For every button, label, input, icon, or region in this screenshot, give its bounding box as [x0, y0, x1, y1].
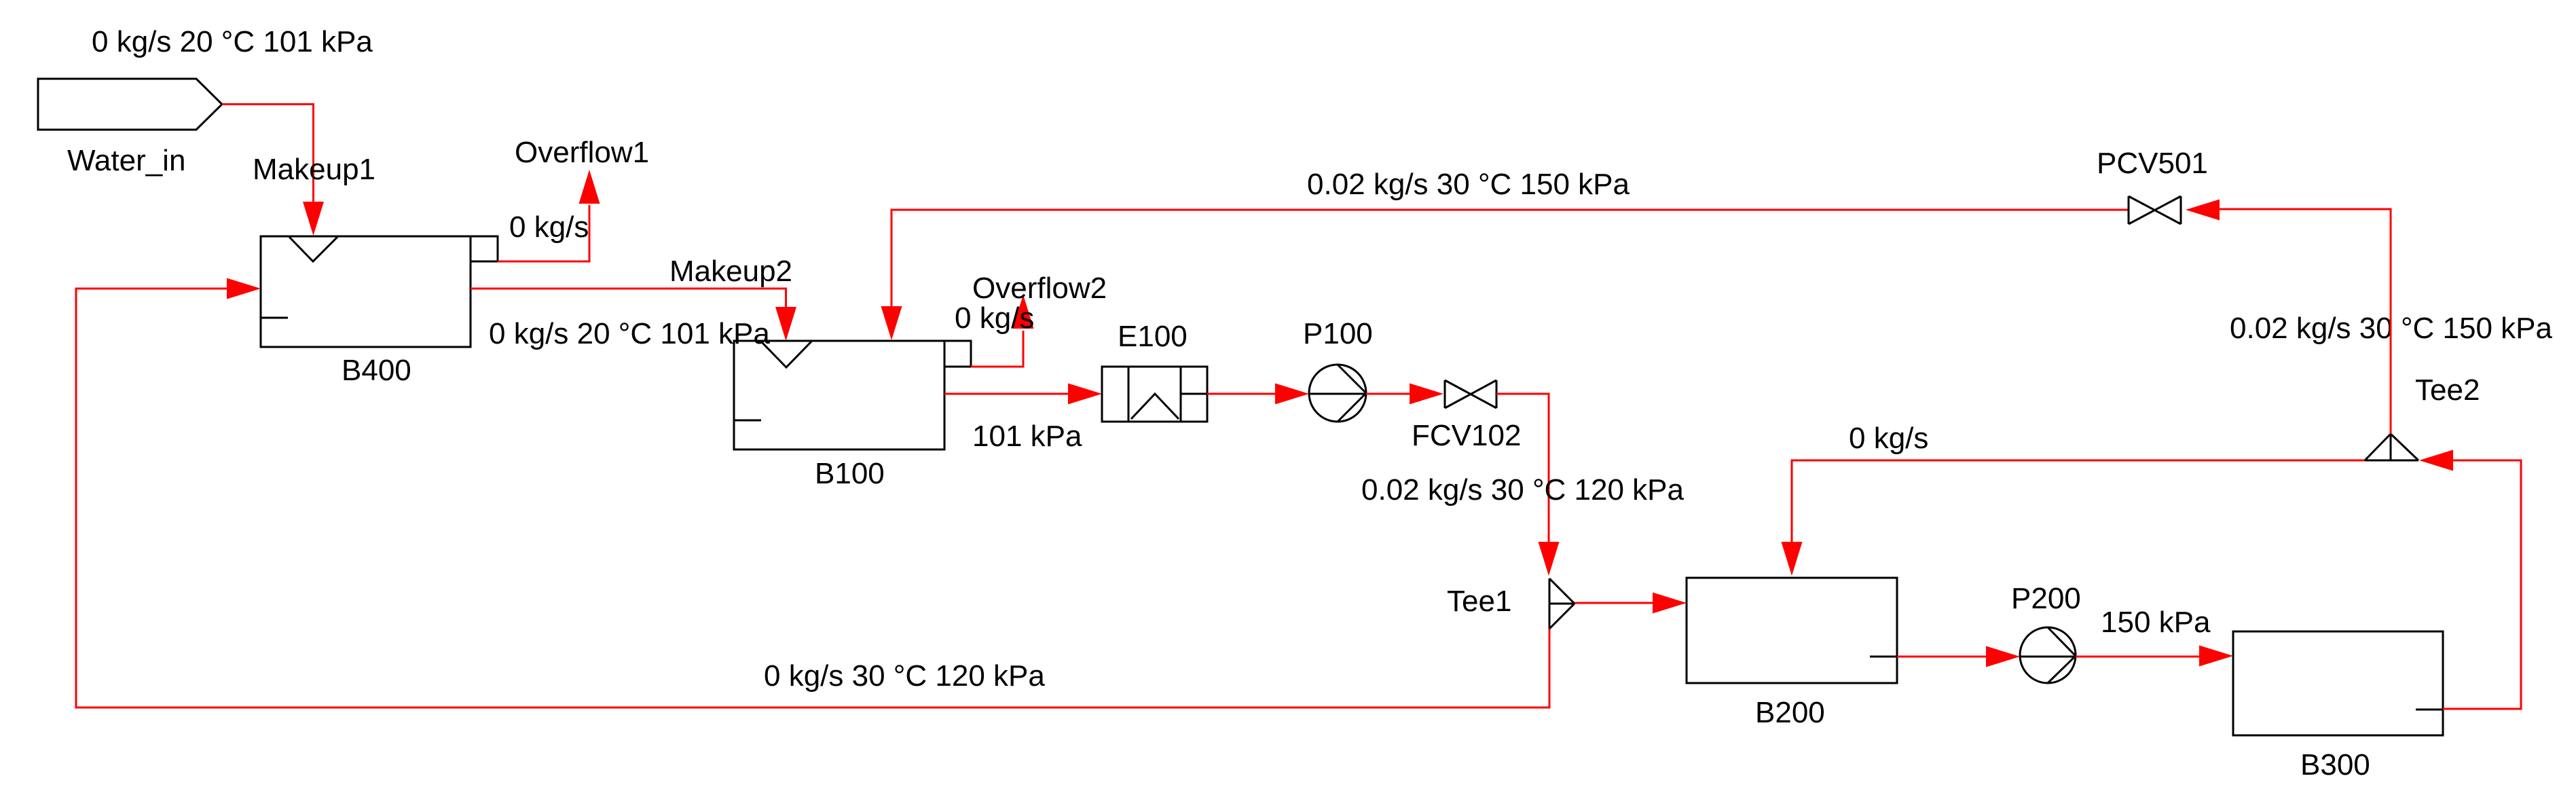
svg-text:Tee2: Tee2 — [2415, 373, 2480, 407]
wire Tee1 to B200 (red) — [1575, 602, 1653, 604]
svg-text:Tee1: Tee1 — [1447, 585, 1511, 618]
svg-text:B200: B200 — [1755, 696, 1825, 729]
svg-text:Overflow1: Overflow1 — [515, 136, 649, 169]
arrow Makeup2 into B100 — [775, 307, 796, 341]
wire B100 to E100 (red) — [944, 393, 1068, 395]
arrow into P100 — [1275, 384, 1309, 405]
svg-text:PCV501: PCV501 — [2097, 147, 2208, 180]
svg-text:0 kg/s: 0 kg/s — [509, 210, 589, 244]
wire P100 to FCV102 (red) — [1366, 393, 1410, 395]
wire B200 to P200 (red) — [1897, 656, 1986, 658]
svg-text:FCV102: FCV102 — [1412, 419, 1521, 452]
svg-text:P100: P100 — [1303, 317, 1373, 350]
valve PCV501 — [2129, 196, 2181, 224]
svg-text:0.02 kg/s 30 °C 120 kPa: 0.02 kg/s 30 °C 120 kPa — [1361, 473, 1685, 507]
svg-text:101 kPa: 101 kPa — [972, 420, 1082, 453]
svg-text:B100: B100 — [815, 457, 885, 490]
wire FCV102 to Tee1 (red) — [1496, 394, 1549, 543]
svg-text:Overflow2: Overflow2 — [972, 272, 1107, 305]
arrow into E100 — [1068, 384, 1102, 405]
wire B300 to Tee2 (red) — [2443, 460, 2521, 709]
arrow into B200 top — [1782, 542, 1803, 576]
svg-text:Makeup1: Makeup1 — [253, 153, 375, 186]
arrow into B200 left — [1653, 593, 1687, 614]
arrow Makeup1 into B400 — [303, 202, 324, 236]
svg-text:0.02 kg/s 30 °C 150 kPa: 0.02 kg/s 30 °C 150 kPa — [1307, 168, 1630, 201]
pump P200 — [2020, 627, 2076, 683]
svg-text:150 kPa: 150 kPa — [2101, 606, 2211, 639]
svg-text:B300: B300 — [2300, 748, 2370, 781]
source flag Water_in — [38, 79, 222, 130]
tee Tee2 — [2365, 434, 2418, 460]
heat exchanger E100 — [1102, 367, 1207, 422]
arrow into PCV501 right — [2186, 200, 2220, 221]
pump P100 — [1309, 365, 1366, 422]
svg-text:B400: B400 — [342, 354, 411, 387]
wire Water_in to Makeup1 (red) — [222, 105, 314, 204]
arrow into FCV102 — [1410, 384, 1443, 405]
wire P200 to B300 (red) — [2076, 656, 2199, 658]
wire Overflow2 (red) — [971, 331, 1023, 367]
tank B300 — [2233, 631, 2443, 735]
arrow into P200 — [1986, 646, 2020, 667]
svg-text:0 kg/s: 0 kg/s — [1849, 422, 1928, 455]
svg-text:Water_in: Water_in — [67, 144, 185, 177]
valve FCV102 — [1445, 380, 1496, 408]
wire PCV501 to B100 top (red) — [891, 210, 2129, 307]
arrow Overflow2 up — [1013, 295, 1034, 329]
svg-text:0 kg/s 20 °C 101 kPa: 0 kg/s 20 °C 101 kPa — [489, 317, 770, 350]
svg-text:E100: E100 — [1118, 320, 1188, 353]
arrow into Tee1 — [1539, 542, 1560, 576]
tee Tee1 — [1549, 578, 1575, 629]
wire Tee2 branch to B200 top (red) — [1792, 460, 2365, 543]
svg-text:0 kg/s 30 °C 120 kPa: 0 kg/s 30 °C 120 kPa — [764, 659, 1045, 693]
wire Overflow1 (red) — [498, 205, 589, 261]
svg-text:0 kg/s 20 °C 101 kPa: 0 kg/s 20 °C 101 kPa — [92, 25, 373, 58]
svg-text:P200: P200 — [2011, 582, 2081, 615]
arrow into B400 left — [227, 278, 261, 299]
arrow into B100 top — [881, 306, 902, 340]
wire Tee2 to PCV501 to B100 (red) — [2218, 209, 2391, 434]
svg-text:Makeup2: Makeup2 — [669, 255, 792, 288]
tank B100 — [734, 341, 971, 449]
tank B200 — [1687, 578, 1897, 683]
wire Makeup2 from B400 to B100 (red) — [471, 289, 786, 308]
wire E100 to P100 (red) — [1207, 393, 1275, 395]
wire return line into B400 (red) — [76, 289, 1549, 707]
svg-text:0 kg/s: 0 kg/s — [955, 301, 1034, 335]
arrow into Tee2 right — [2419, 450, 2453, 471]
arrow into B300 — [2199, 646, 2233, 667]
arrow Overflow1 up — [579, 170, 600, 204]
tank B400 — [261, 236, 498, 347]
